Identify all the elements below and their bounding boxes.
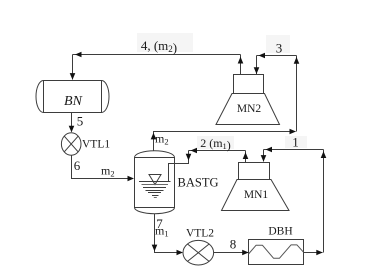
wire riser vent to line 3 — [296, 56, 298, 132]
svg-text:3: 3 — [276, 41, 283, 56]
wire line 8 — [214, 252, 248, 254]
turbine MN1 — [239, 163, 270, 180]
arrow up riser to line 3 — [294, 57, 300, 64]
turbine MN2 — [234, 75, 264, 94]
wire line 7 — [155, 214, 183, 253]
svg-text:VTL1: VTL1 — [82, 139, 110, 151]
svg-text:1: 1 — [292, 135, 299, 150]
arrow into MN1 top — [261, 155, 267, 162]
wire line 4 drop into BN — [72, 55, 74, 80]
drum BN — [44, 81, 102, 113]
svg-text:5: 5 — [77, 114, 84, 129]
wire vent from BASTG top — [154, 132, 296, 151]
svg-text:8: 8 — [230, 237, 237, 252]
wire line 1 drop into MN1 — [263, 150, 265, 162]
faint label background 1 — [285, 136, 307, 148]
arrow up vent from BASTG — [151, 133, 157, 140]
wire riser from DBH outlet to line 1 — [323, 150, 325, 253]
heater DBH — [249, 240, 304, 265]
arrow up to line 4 from MN2 — [238, 57, 244, 64]
faint label background 4 — [137, 33, 193, 52]
wire line 3 drop into MN2 — [256, 56, 258, 75]
arrow right end vent line — [290, 129, 297, 135]
svg-text:MN1: MN1 — [244, 189, 269, 201]
valve VTL2 — [183, 240, 214, 265]
wire riser from MN1 to line 2 — [245, 151, 247, 163]
svg-text:6: 6 — [74, 158, 81, 173]
wire line 3 horizontal — [257, 55, 297, 57]
arrow into DBH — [242, 250, 249, 255]
faint label background 2 — [197, 136, 234, 149]
wire line 1 horizontal — [264, 149, 324, 151]
svg-text:MN2: MN2 — [237, 103, 262, 115]
arrow into BN top — [70, 73, 76, 80]
svg-text:DBH: DBH — [268, 226, 292, 238]
arrow left end line 2 — [191, 148, 198, 153]
arrow into MN2 top — [254, 67, 260, 74]
arrow into VTL1 — [69, 126, 75, 133]
arrow down internal pipe — [186, 154, 192, 161]
level symbol water lines — [139, 181, 171, 183]
svg-text:BASTG: BASTG — [178, 176, 219, 190]
arrow down line 7 — [152, 245, 158, 252]
wire line 2 into BASTG internal pipe — [169, 151, 189, 182]
arrow left end line 3 — [259, 53, 266, 58]
faint label background 3 — [266, 35, 290, 53]
arrow into BASTG left inlet — [128, 176, 135, 181]
svg-text:BN: BN — [64, 94, 83, 109]
arrow up to line 2 from MN1 — [243, 152, 249, 159]
wire line 5 — [71, 113, 73, 132]
wire line 4 horizontal — [73, 54, 241, 56]
vessel BASTG — [135, 158, 175, 208]
svg-text:VTL2: VTL2 — [186, 228, 214, 240]
wire DBH outlet — [304, 252, 323, 254]
wire line 6 — [72, 155, 134, 178]
svg-text:2 (m1): 2 (m1) — [200, 136, 231, 152]
arrow left end line 4 — [75, 52, 82, 57]
wire line 2 horizontal — [189, 150, 246, 152]
wire riser from MN2 to line 4 — [240, 55, 242, 75]
arrow left end line 1 — [266, 147, 273, 152]
level symbol triangle — [149, 175, 161, 185]
valve VTL1 — [61, 133, 81, 155]
arrow into VTL2 — [177, 250, 184, 255]
arrow into riser at DBH outlet — [316, 250, 323, 255]
arrow up riser to line 1 — [321, 151, 327, 158]
